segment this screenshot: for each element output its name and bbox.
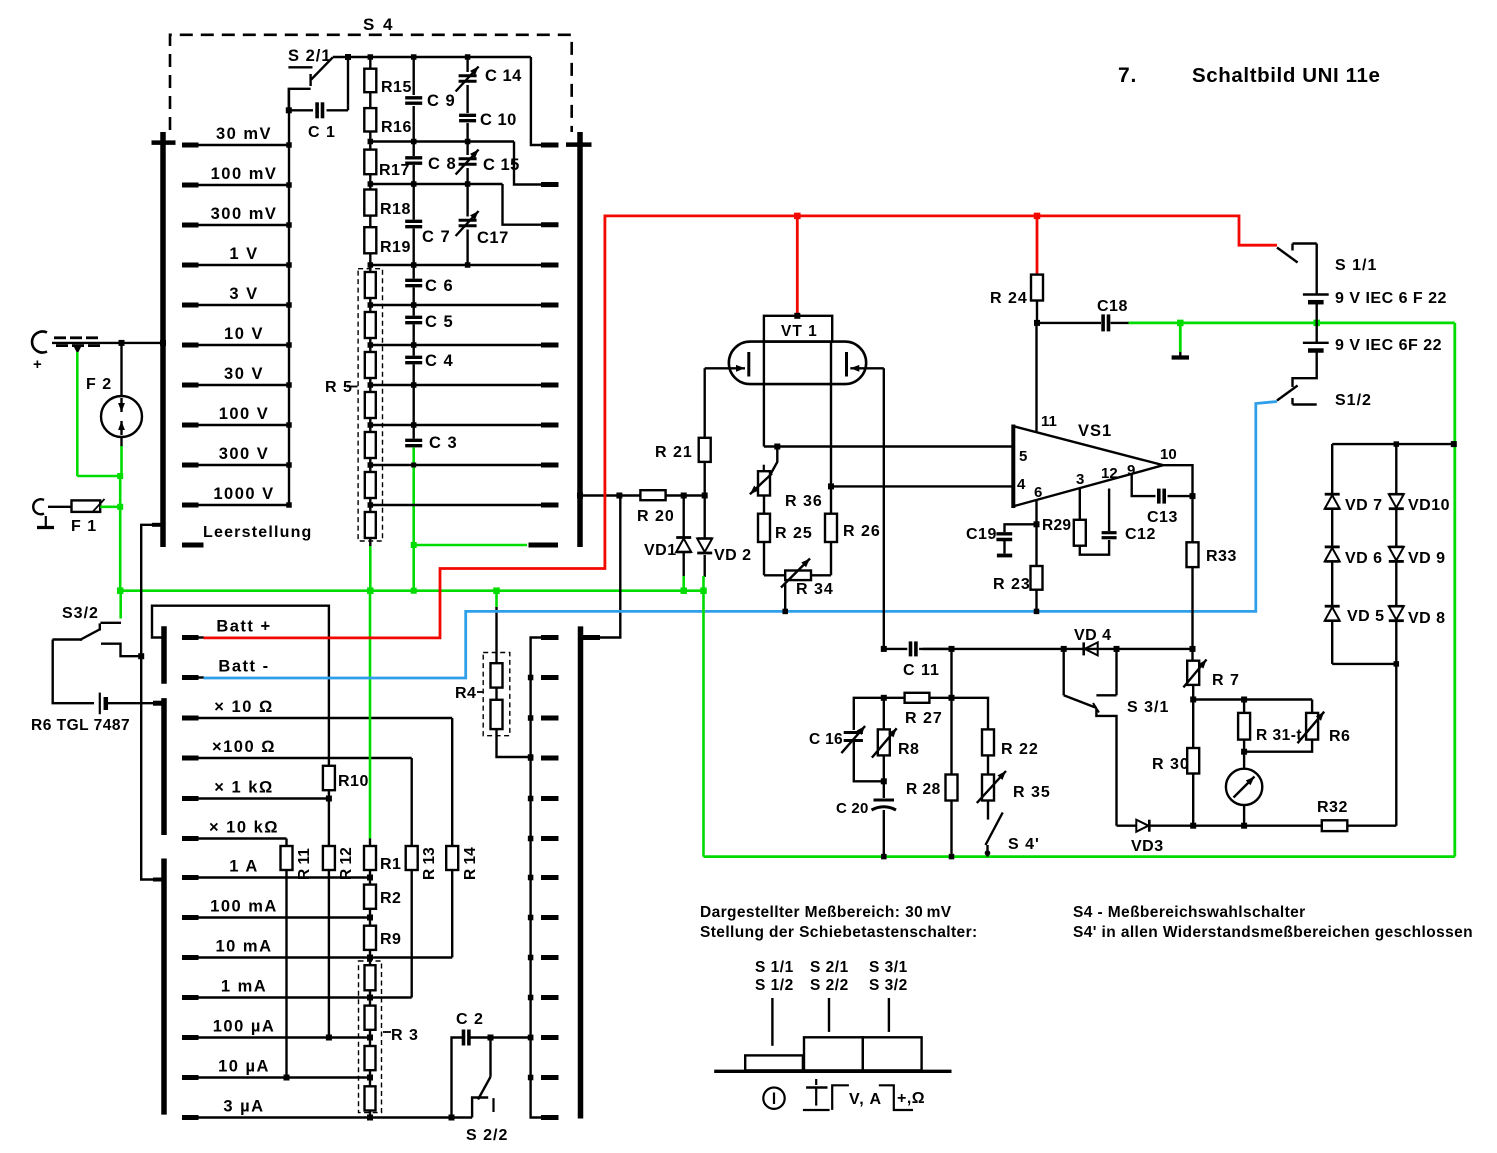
switch S2/1 bbox=[288, 47, 333, 110]
wire F1 to green node bbox=[100, 476, 123, 591]
svg-text:R 13: R 13 bbox=[421, 847, 438, 880]
diode VD2 bbox=[697, 496, 751, 578]
svg-text:S 2/2: S 2/2 bbox=[810, 977, 849, 994]
range contact 3 V bbox=[182, 285, 292, 308]
svg-text:3 V: 3 V bbox=[229, 285, 258, 303]
mode contact Batt + bbox=[182, 618, 272, 638]
resistor R14 bbox=[446, 718, 479, 958]
resistor R3 (chain in dashed box) bbox=[359, 958, 419, 1121]
resistor R16 bbox=[364, 92, 412, 136]
switch S2/2 bbox=[466, 1038, 508, 1145]
wire ladder level 30V bbox=[368, 382, 559, 388]
svg-text:R16: R16 bbox=[381, 119, 412, 136]
svg-text:VD 2: VD 2 bbox=[714, 547, 752, 564]
svg-text:C 8: C 8 bbox=[428, 155, 457, 173]
diode VD6 bbox=[1325, 509, 1383, 567]
svg-text:VT 1: VT 1 bbox=[781, 323, 818, 340]
resistor R5 (chain in dashed box) bbox=[325, 253, 383, 546]
svg-text:C 1: C 1 bbox=[308, 124, 336, 141]
slide switch diagram stems bbox=[772, 998, 889, 1046]
svg-text:S 1/1: S 1/1 bbox=[755, 959, 794, 976]
svg-text:VD3: VD3 bbox=[1131, 838, 1164, 855]
trimmer resistor R7 bbox=[1183, 649, 1240, 703]
diode VD7 bbox=[1325, 444, 1383, 514]
wire main green bus bbox=[117, 587, 704, 594]
switch S3/2 bbox=[53, 591, 142, 704]
wire range-bar to lower bank bbox=[138, 525, 162, 880]
svg-text:R 31-t: R 31-t bbox=[1256, 727, 1302, 744]
resistor R13 bbox=[406, 758, 438, 998]
svg-text:C 5: C 5 bbox=[425, 313, 454, 331]
svg-text:30 V: 30 V bbox=[224, 365, 264, 383]
svg-text:R 23: R 23 bbox=[993, 576, 1031, 593]
svg-text:C18: C18 bbox=[1097, 298, 1128, 315]
svg-text:R6: R6 bbox=[1329, 728, 1350, 745]
svg-text:Dargestellter Meßbereich: 30: Dargestellter Meßbereich: 30 mV bbox=[700, 904, 952, 921]
mode contact 10 µA bbox=[182, 1058, 370, 1078]
wire lower-bank common bus bbox=[528, 638, 559, 1118]
wire ladder level 100mV bbox=[370, 184, 558, 225]
capacitor C19 bbox=[966, 524, 1037, 555]
svg-text:Batt +: Batt + bbox=[216, 618, 271, 636]
fuse F2 (overcurrent trip) bbox=[86, 343, 142, 447]
svg-text:100 mA: 100 mA bbox=[210, 898, 278, 916]
wire R20 feed from range bar bbox=[577, 493, 620, 638]
thermistor R6 bbox=[1244, 700, 1350, 752]
wire ladder level 1V bbox=[370, 264, 558, 266]
diode network bottom rail bbox=[1332, 661, 1399, 667]
svg-text:R8: R8 bbox=[898, 741, 919, 758]
svg-text:11: 11 bbox=[1041, 413, 1057, 430]
svg-text:S 1/1: S 1/1 bbox=[1335, 257, 1377, 274]
resistor R22 bbox=[952, 698, 1039, 758]
svg-text:R 3: R 3 bbox=[391, 1027, 419, 1044]
meter (galvanometer) bbox=[1226, 752, 1262, 829]
wire VD1 to green bus bbox=[680, 576, 687, 594]
svg-text:R2: R2 bbox=[380, 890, 401, 907]
svg-text:× 10 Ω: × 10 Ω bbox=[214, 698, 273, 716]
range contact Leerstellung (empty position) bbox=[182, 524, 313, 545]
svg-text:R 21: R 21 bbox=[655, 444, 693, 461]
slide switch diagram labels bbox=[755, 959, 908, 994]
svg-text:F 2: F 2 bbox=[86, 376, 112, 393]
resistor R2 bbox=[364, 878, 401, 921]
mode contact Batt - bbox=[182, 658, 270, 678]
resistor R28 bbox=[906, 649, 958, 859]
svg-text:4: 4 bbox=[1017, 476, 1026, 493]
mode contact × 10 Ω bbox=[182, 698, 452, 718]
trimmer capacitor C16 bbox=[809, 698, 884, 782]
trimmer resistor R34 bbox=[764, 559, 834, 615]
mode switch left bus bar bbox=[161, 626, 167, 1114]
svg-text:C 20: C 20 bbox=[836, 800, 869, 817]
switch S1/1 bbox=[1277, 244, 1377, 294]
svg-text:C 9: C 9 bbox=[427, 92, 456, 110]
battery 9V IEC 6F22 (lower) bbox=[1293, 323, 1443, 387]
svg-text:12: 12 bbox=[1101, 465, 1118, 482]
svg-text:R9: R9 bbox=[380, 931, 401, 948]
svg-text:R 20: R 20 bbox=[637, 508, 675, 525]
diode VD5 bbox=[1325, 562, 1385, 664]
capacitor C7 bbox=[405, 181, 450, 265]
range contact 10 V bbox=[182, 325, 292, 348]
svg-text:R 7: R 7 bbox=[1212, 672, 1240, 689]
svg-text:R33: R33 bbox=[1206, 548, 1237, 565]
trimmer resistor R8 bbox=[872, 698, 920, 785]
svg-text:V, A: V, A bbox=[849, 1091, 882, 1108]
range contact 300 V bbox=[182, 445, 292, 468]
trimmer resistor R35 bbox=[977, 755, 1051, 819]
wire ladder level 30mV bbox=[370, 142, 558, 185]
battery R6 TGL 7487 bbox=[31, 693, 162, 734]
capacitor C18 bbox=[1037, 298, 1129, 331]
resistor R27 bbox=[881, 693, 955, 727]
resistor R4 (two sections in dashed box) bbox=[455, 591, 533, 760]
svg-text:R 11: R 11 bbox=[296, 848, 313, 880]
capacitor C2 bbox=[449, 1011, 534, 1121]
range contact 1000 V bbox=[182, 485, 292, 508]
svg-text:+,Ω: +,Ω bbox=[897, 1090, 925, 1107]
svg-text:Stellung der Schiebetastensc: Stellung der Schiebetastenschalter: bbox=[700, 924, 978, 941]
svg-text:S3/2: S3/2 bbox=[62, 605, 99, 622]
svg-text:3 µA: 3 µA bbox=[223, 1098, 264, 1116]
diode VD4 bbox=[1074, 627, 1112, 655]
resistor R17 bbox=[364, 132, 410, 180]
capacitor C13 bbox=[1132, 474, 1196, 526]
resistor R30 bbox=[1152, 700, 1199, 829]
capacitor C8 bbox=[405, 139, 456, 184]
svg-text:C17: C17 bbox=[477, 229, 509, 247]
range contact 1 V bbox=[182, 245, 292, 268]
svg-text:C 7: C 7 bbox=[422, 228, 451, 246]
svg-text:F 1: F 1 bbox=[71, 518, 97, 535]
svg-text:C 14: C 14 bbox=[485, 67, 522, 85]
svg-text:5: 5 bbox=[1019, 448, 1027, 465]
svg-text:7.: 7. bbox=[1118, 64, 1137, 87]
svg-text:R10: R10 bbox=[338, 773, 369, 790]
switch S1/2 bbox=[1277, 386, 1372, 410]
resistor R12 bbox=[323, 799, 355, 1041]
svg-text:1 A: 1 A bbox=[229, 858, 259, 876]
wire green bus to R1 bbox=[369, 591, 372, 839]
input jack (+) terminal bbox=[32, 332, 166, 374]
mode contact × 10 kΩ bbox=[182, 819, 287, 839]
wire ladder level 3V bbox=[368, 302, 559, 308]
slide switch button S2 bbox=[804, 1037, 863, 1070]
mode contact 100 mA bbox=[182, 898, 370, 918]
wire Batt+ loop to R10 bbox=[152, 606, 329, 766]
trimmer resistor R36 bbox=[750, 447, 823, 511]
legend ground symbol bbox=[803, 1079, 830, 1110]
wire red V+ rail bbox=[204, 213, 1278, 638]
svg-text:S 4': S 4' bbox=[1008, 836, 1040, 853]
diode VD3 bbox=[1117, 820, 1194, 855]
wire meter rail to R32 bbox=[1193, 825, 1322, 827]
svg-text:300 mV: 300 mV bbox=[211, 205, 278, 223]
svg-text:S 2/2: S 2/2 bbox=[466, 1127, 508, 1144]
caption S4 explanation bbox=[1073, 904, 1473, 941]
svg-text:R 36: R 36 bbox=[785, 493, 823, 510]
svg-text:C13: C13 bbox=[1147, 509, 1178, 526]
svg-text:×100 Ω: ×100 Ω bbox=[212, 738, 276, 756]
slide switch base line bbox=[714, 1070, 951, 1073]
svg-text:VD 4: VD 4 bbox=[1074, 627, 1112, 644]
input jack (ground) terminal bbox=[33, 499, 71, 514]
wire C11 node to VD4 bbox=[923, 646, 1196, 652]
svg-text:R 14: R 14 bbox=[462, 847, 479, 880]
svg-text:VD 7: VD 7 bbox=[1345, 497, 1383, 514]
svg-text:6: 6 bbox=[1034, 484, 1042, 501]
svg-text:S 3/1: S 3/1 bbox=[1127, 699, 1169, 716]
trimmer capacitor C15 bbox=[456, 139, 520, 184]
wire R7 to R31/R6 bbox=[1193, 697, 1312, 703]
svg-text:100 V: 100 V bbox=[219, 405, 270, 423]
svg-text:R29: R29 bbox=[1042, 517, 1071, 534]
svg-text:VD 5: VD 5 bbox=[1347, 608, 1385, 625]
svg-text:Leerstellung: Leerstellung bbox=[203, 524, 313, 541]
svg-text:VS1: VS1 bbox=[1078, 422, 1112, 440]
svg-text:× 10 kΩ: × 10 kΩ bbox=[209, 819, 279, 837]
capacitor C20 bbox=[836, 781, 896, 859]
mode contact 1 A bbox=[182, 858, 370, 878]
svg-text:VD10: VD10 bbox=[1408, 497, 1450, 514]
svg-text:1000 V: 1000 V bbox=[213, 485, 274, 503]
transistor VT1 (dual FET) bbox=[705, 216, 884, 487]
wire ladder level 10V bbox=[368, 342, 559, 348]
wire R32 to diode network bbox=[1395, 665, 1397, 826]
svg-text:S1/2: S1/2 bbox=[1335, 392, 1372, 409]
svg-text:R4: R4 bbox=[455, 685, 476, 702]
capacitor C1 bbox=[286, 54, 351, 141]
svg-text:R15: R15 bbox=[381, 79, 412, 96]
resistor R31-t bbox=[1238, 700, 1302, 755]
svg-text:C19: C19 bbox=[966, 526, 997, 543]
svg-text:9 V IEC 6 F 22: 9 V IEC 6 F 22 bbox=[1335, 290, 1447, 307]
resistor R18 bbox=[364, 174, 411, 218]
resistor R19 bbox=[364, 216, 411, 256]
legend power symbol bbox=[763, 1088, 784, 1109]
wire ladder level 300V bbox=[368, 462, 559, 468]
svg-text:R 27: R 27 bbox=[905, 710, 943, 727]
resistor R1 bbox=[364, 839, 401, 881]
wire F2 to green node bbox=[77, 352, 123, 479]
slide switch button S3 bbox=[863, 1037, 922, 1070]
svg-text:C 4: C 4 bbox=[425, 352, 454, 370]
svg-text:30 mV: 30 mV bbox=[216, 125, 272, 143]
svg-text:S 2/1: S 2/1 bbox=[288, 47, 332, 65]
resistor R20 bbox=[616, 490, 707, 525]
svg-text:R 35: R 35 bbox=[1013, 784, 1051, 801]
resistor R29 bbox=[1042, 489, 1109, 555]
diode network VD5-VD10 top rail bbox=[1332, 441, 1457, 447]
resistor R24 bbox=[990, 216, 1043, 326]
mode contact 3 µA bbox=[182, 1098, 472, 1118]
resistor R23 bbox=[993, 566, 1043, 614]
switch S3/1 bbox=[1064, 649, 1170, 826]
svg-text:R19: R19 bbox=[380, 239, 411, 256]
svg-text:R 25: R 25 bbox=[775, 525, 813, 542]
svg-text:R 26: R 26 bbox=[843, 523, 881, 540]
svg-text:R18: R18 bbox=[380, 201, 411, 218]
svg-text:× 1 kΩ: × 1 kΩ bbox=[214, 779, 273, 797]
svg-text:S 3/1: S 3/1 bbox=[869, 959, 908, 976]
diode VD1 bbox=[644, 496, 691, 578]
svg-text:R32: R32 bbox=[1317, 799, 1348, 816]
wire VT1 left source to VS1 pin 5 bbox=[764, 444, 1013, 450]
svg-text:3: 3 bbox=[1076, 471, 1084, 488]
svg-text:R6 TGL 7487: R6 TGL 7487 bbox=[31, 717, 130, 734]
title heading bbox=[1118, 64, 1381, 87]
capacitor C12 bbox=[1102, 489, 1156, 544]
trimmer capacitor C14 bbox=[456, 57, 523, 92]
svg-text:R 24: R 24 bbox=[990, 290, 1028, 307]
mode contact ×100 Ω bbox=[182, 738, 412, 758]
ground symbol at C18 bbox=[1172, 323, 1189, 358]
ground symbol at input jack bbox=[37, 516, 54, 528]
capacitor C11 bbox=[881, 641, 952, 679]
capacitor C9 bbox=[405, 57, 455, 142]
svg-text:9 V IEC 6F 22: 9 V IEC 6F 22 bbox=[1335, 337, 1442, 354]
resistor R9 bbox=[364, 918, 401, 961]
svg-text:R 22: R 22 bbox=[1001, 741, 1039, 758]
resistor R21 bbox=[655, 368, 711, 495]
svg-text:10 mA: 10 mA bbox=[215, 938, 272, 956]
svg-text:C 10: C 10 bbox=[480, 111, 517, 129]
svg-text:+: + bbox=[33, 356, 42, 373]
wire ladder level 1000V bbox=[368, 502, 559, 508]
range contact 300 mV bbox=[182, 205, 292, 228]
wire green to battery mid-point bbox=[1129, 320, 1455, 327]
svg-text:S 2/1: S 2/1 bbox=[810, 959, 849, 976]
svg-text:R 30: R 30 bbox=[1152, 756, 1190, 773]
range contact 30 mV bbox=[182, 125, 292, 148]
wire C3 to Leerstellung and green bus bbox=[411, 448, 558, 594]
svg-text:100 mV: 100 mV bbox=[211, 165, 278, 183]
resistor R25 bbox=[758, 496, 813, 576]
trimmer capacitor C17 bbox=[456, 181, 509, 268]
op-amp VS1 bbox=[1013, 413, 1176, 508]
svg-text:R1: R1 bbox=[380, 856, 401, 873]
fuse F1 bbox=[71, 499, 105, 535]
capacitor C3 bbox=[405, 382, 457, 452]
battery 9V IEC 6F22 (upper) bbox=[1303, 290, 1447, 323]
capacitor C4 bbox=[405, 342, 453, 385]
svg-text:R 12: R 12 bbox=[338, 847, 355, 880]
switch S4-prime bbox=[985, 813, 1040, 857]
svg-text:1 V: 1 V bbox=[229, 245, 258, 263]
svg-text:10 µA: 10 µA bbox=[218, 1058, 270, 1076]
svg-text:C 11: C 11 bbox=[903, 662, 940, 679]
range contact 100 mV bbox=[182, 165, 292, 188]
wire blue V- rail bbox=[204, 402, 1278, 679]
legend V-A bracket bbox=[832, 1085, 925, 1110]
resistor R11 bbox=[281, 839, 314, 1081]
diode VD8 bbox=[1389, 562, 1446, 664]
wire VS1 output pin 10 bbox=[1163, 465, 1192, 542]
caption measurement range bbox=[700, 904, 978, 941]
switch S4 dashed outline bbox=[170, 15, 572, 132]
svg-text:VD 9: VD 9 bbox=[1408, 550, 1446, 567]
svg-text:10: 10 bbox=[1160, 446, 1177, 463]
range switch right bus bar bbox=[566, 132, 592, 547]
diode VD9 bbox=[1389, 509, 1446, 567]
resistor R10 bbox=[323, 766, 369, 802]
diode VD10 bbox=[1389, 444, 1450, 514]
wire ladder level 100V bbox=[368, 422, 559, 428]
slide switch button S1 bbox=[745, 1055, 803, 1070]
range contact 100 V bbox=[182, 405, 292, 428]
svg-text:C 16: C 16 bbox=[809, 731, 843, 748]
wire green right loop bbox=[704, 323, 1455, 857]
svg-text:C 2: C 2 bbox=[456, 1011, 484, 1028]
wire VS1 pin 6 node bbox=[1034, 500, 1040, 566]
wire VS1 pin 11 supply bbox=[1035, 323, 1037, 432]
capacitor C5 bbox=[405, 302, 453, 345]
svg-text:VD 8: VD 8 bbox=[1408, 610, 1446, 627]
svg-text:S 1/2: S 1/2 bbox=[755, 977, 794, 994]
svg-text:1 mA: 1 mA bbox=[221, 978, 267, 996]
svg-text:C 6: C 6 bbox=[425, 277, 454, 295]
svg-text:R 5: R 5 bbox=[325, 379, 353, 396]
svg-text:S4' in allen Widerstandsmeßber: S4' in allen Widerstandsmeßbereichen ges… bbox=[1073, 924, 1473, 941]
resistor R33 bbox=[1187, 542, 1237, 648]
svg-text:S 3/2: S 3/2 bbox=[869, 977, 908, 994]
mode contact 1 mA bbox=[182, 978, 412, 998]
wire top bus (attenuator top) bbox=[333, 54, 559, 145]
svg-text:Schaltbild UNI 11e: Schaltbild UNI 11e bbox=[1192, 64, 1381, 87]
svg-text:Batt -: Batt - bbox=[218, 658, 269, 676]
svg-text:S4 - Meßbereichswahlschalter: S4 - Meßbereichswahlschalter bbox=[1073, 904, 1306, 921]
svg-text:VD 6: VD 6 bbox=[1345, 550, 1383, 567]
svg-text:100 µA: 100 µA bbox=[213, 1018, 276, 1036]
mode contact 100 µA bbox=[182, 1018, 370, 1038]
capacitor C10 bbox=[459, 85, 517, 142]
svg-text:300 V: 300 V bbox=[219, 445, 270, 463]
capacitor C6 bbox=[405, 262, 453, 305]
wire VT1 right gate to C11 bbox=[883, 368, 885, 649]
range contact 30 V bbox=[182, 365, 292, 388]
svg-text:10 V: 10 V bbox=[224, 325, 264, 343]
svg-text:C12: C12 bbox=[1125, 526, 1156, 543]
svg-text:R 28: R 28 bbox=[906, 781, 941, 798]
range switch left bus bar bbox=[152, 132, 176, 547]
svg-text:C 3: C 3 bbox=[429, 434, 458, 452]
wiper column wire bbox=[288, 89, 290, 505]
svg-text:VD1: VD1 bbox=[644, 542, 677, 559]
mode contact 10 mA bbox=[182, 938, 452, 958]
resistor R26 bbox=[825, 483, 881, 575]
svg-text:S 4: S 4 bbox=[363, 15, 395, 34]
mode switch right bus bar bbox=[578, 626, 584, 1118]
resistor R15 bbox=[364, 57, 412, 96]
svg-text:R 34: R 34 bbox=[796, 581, 834, 598]
resistor R32 bbox=[1317, 799, 1396, 831]
wire VD2 to green bus and lower green loop bbox=[700, 576, 707, 857]
mode contact × 1 kΩ bbox=[182, 779, 329, 799]
wire VT1 right source to VS1 pin 4 bbox=[831, 485, 1013, 487]
wire R5 bottom to green bus bbox=[369, 546, 372, 591]
